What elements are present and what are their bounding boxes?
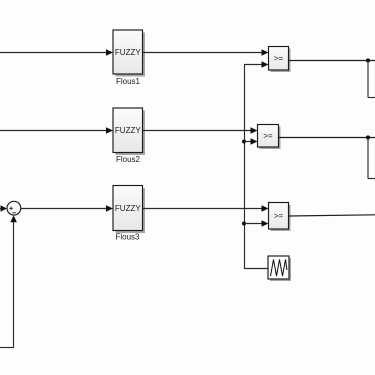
svg-text:Flous3: Flous3 xyxy=(115,233,140,242)
wire relational operator 3 output xyxy=(289,215,375,216)
summing junction Sum xyxy=(7,201,21,215)
junction node carrier to relational operator 2 xyxy=(242,138,258,145)
wire Flous1 to relational operator 1 xyxy=(143,49,269,56)
wire carrier trunk from signal generator xyxy=(244,61,269,269)
fuzzy controller block Flous2 xyxy=(113,108,145,155)
relational operator U1 (>=) xyxy=(269,47,291,73)
relational operator U2 (>=) xyxy=(258,125,281,150)
svg-text:FUZZY: FUZZY xyxy=(115,204,141,213)
wire Flous2 to relational operator 2 xyxy=(143,127,258,134)
wire input3 to sum xyxy=(0,205,7,211)
svg-text:FUZZY: FUZZY xyxy=(115,126,141,135)
wire relational operator 1 output with branch xyxy=(289,58,375,97)
wire relational operator 2 output with branch xyxy=(279,135,375,178)
wire sum to Flous3 xyxy=(21,205,113,212)
wire input2 to Flous2 xyxy=(0,127,113,134)
svg-text:>=: >= xyxy=(274,212,284,221)
relational operator U3 (>=) xyxy=(269,203,291,232)
junction node carrier to relational operator 3 xyxy=(242,220,269,227)
fuzzy controller block Flous3 xyxy=(113,186,145,234)
svg-text:Flous1: Flous1 xyxy=(116,77,141,86)
svg-text:>=: >= xyxy=(274,54,284,63)
svg-text:FUZZY: FUZZY xyxy=(115,48,141,57)
wire feedback from bottom into sum minus input xyxy=(0,215,17,347)
svg-text:>=: >= xyxy=(263,132,273,141)
fuzzy controller block Flous1 xyxy=(113,30,145,77)
wire Flous3 to relational operator 3 xyxy=(143,205,269,212)
signal generator (carrier sawtooth) xyxy=(268,256,291,281)
svg-text:Flous2: Flous2 xyxy=(116,155,141,164)
wire input1 to Flous1 xyxy=(0,49,113,56)
